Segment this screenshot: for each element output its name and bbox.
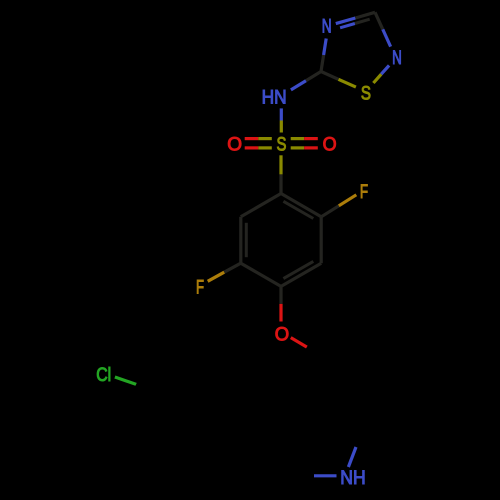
svg-text:Cl: Cl xyxy=(96,364,111,386)
svg-text:O: O xyxy=(275,324,289,346)
bond CH2-C3p (to pyrrolidine quaternary carbon) xyxy=(322,357,323,395)
pyrrolidine bond C2p-C3p xyxy=(322,394,364,427)
sulfonyl S=O left double bond xyxy=(258,137,272,140)
benzene inner aromatic line C5=C6 xyxy=(245,223,248,257)
benzene bond C1-C2 xyxy=(281,194,321,217)
phenyl bond 1 xyxy=(197,412,231,446)
bond C5-NH (exocyclic amine) xyxy=(306,72,321,81)
pyrrolidine bond C5p-N xyxy=(295,474,314,477)
svg-text:S: S xyxy=(361,83,371,105)
bond C4p-phenyl ipso xyxy=(232,412,278,425)
svg-text:S: S xyxy=(277,134,287,156)
svg-text:F: F xyxy=(196,276,204,298)
phenyl bond 2 xyxy=(151,433,197,446)
bond C4-O (ether) xyxy=(279,286,282,304)
thiadiazole bond C3-N2 xyxy=(375,12,383,29)
thiadiazole bond N2-S1 xyxy=(381,65,389,74)
sulfonyl S=O right double bond xyxy=(291,137,305,140)
svg-text:NH: NH xyxy=(340,467,365,489)
phenyl bond 6 xyxy=(220,366,232,413)
phenyl bond 3 xyxy=(139,386,151,433)
phenyl bond 5 xyxy=(173,353,219,366)
svg-text:HN: HN xyxy=(262,87,287,109)
thiadiazole bond N4-C3 inner line xyxy=(340,24,355,28)
benzene bond C5-C6 xyxy=(239,217,242,263)
benzene inner aromatic line C3=C4 xyxy=(283,261,313,278)
bond C2-F (top right fluorine) xyxy=(321,206,339,217)
svg-text:O: O xyxy=(227,134,242,156)
bond C5-F (bottom left fluorine) xyxy=(224,263,241,272)
bond HN-S (N to sulfonyl S) xyxy=(280,108,283,120)
benzene bond C6-C1 xyxy=(241,194,281,217)
bond S-C1 (sulfonyl to benzene) xyxy=(279,155,282,174)
svg-text:N: N xyxy=(392,47,402,69)
thiadiazole bond N4-C3 (double, main line) xyxy=(336,18,356,24)
pyrrolidine bond C3p-C4p xyxy=(278,394,322,425)
pyrrolidine bond N-C2p xyxy=(356,427,364,447)
thiadiazole bond S1-C5 xyxy=(338,79,356,87)
benzene bond C4-C5 xyxy=(241,263,281,286)
benzene bond C2-C3 xyxy=(320,217,323,263)
svg-text:F: F xyxy=(360,181,368,203)
benzene inner aromatic line C1=C2 xyxy=(283,201,313,218)
thiadiazole bond C5-N4 xyxy=(321,55,324,72)
svg-text:O: O xyxy=(323,134,337,156)
bond Cl-phenyl xyxy=(115,377,136,384)
pyrrolidine bond C4p-C5p xyxy=(278,425,295,476)
benzene bond C3-C4 xyxy=(281,263,321,286)
phenyl bond 4 xyxy=(139,353,173,387)
svg-text:N: N xyxy=(322,16,332,38)
bond O-CH2 xyxy=(291,338,307,348)
